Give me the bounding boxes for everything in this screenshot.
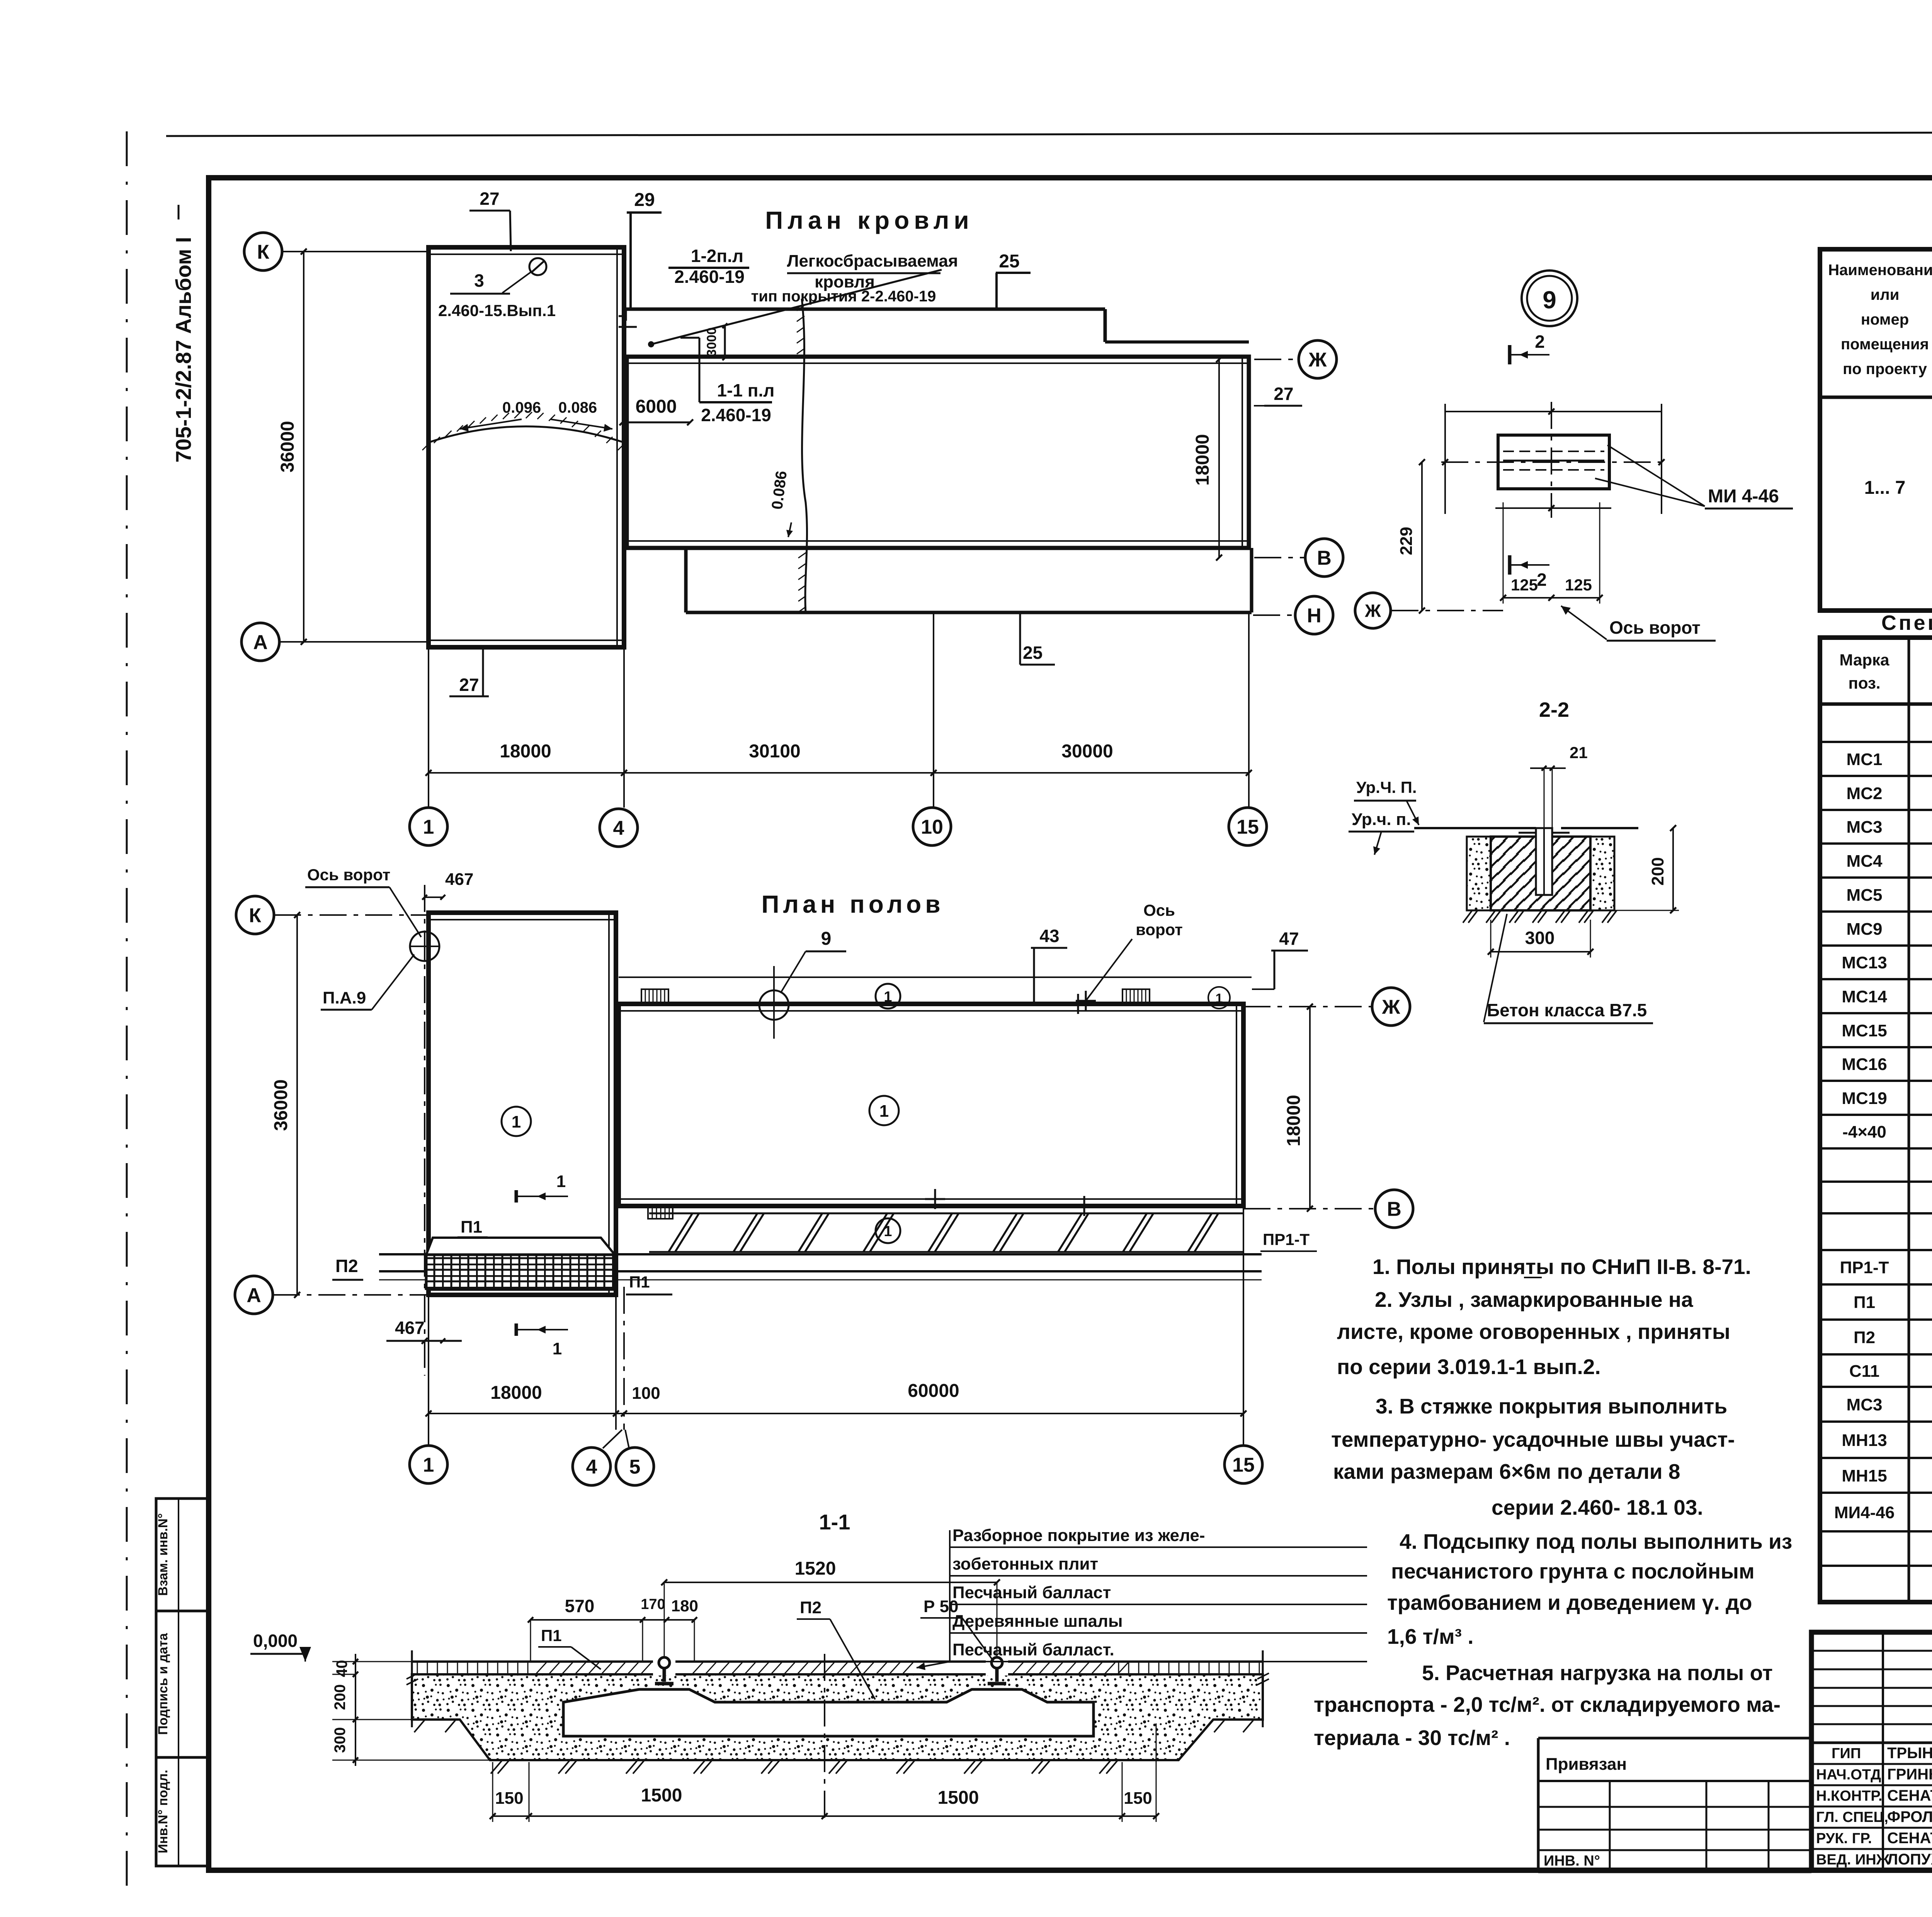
svg-text:П1: П1 [541,1626,562,1645]
grid circles 1 4 10 15 [410,808,447,845]
drainage curve with hatch [429,427,624,443]
svg-text:2: 2 [1537,570,1547,590]
vertical dim 36000 [303,252,304,642]
right edge [1262,1650,1264,1727]
svg-text:Ж: Ж [1308,349,1327,371]
svg-text:3000: 3000 [704,327,719,357]
left edge with break [411,1650,413,1727]
svg-text:МН15: МН15 [1842,1466,1887,1485]
svg-text:1: 1 [884,989,892,1005]
diag hatch П2 middle [692,1662,704,1674]
pit concrete hatched block [1491,837,1590,910]
dim 200 2-2 [1672,828,1674,910]
lower signature rows [1811,1763,1932,1765]
svg-text:300: 300 [1525,928,1555,948]
svg-text:6000: 6000 [636,396,677,417]
svg-text:18000: 18000 [490,1383,542,1403]
svg-text:Деревянные шпалы: Деревянные шпалы [952,1612,1123,1631]
svg-text:МС14: МС14 [1842,987,1887,1006]
inner frame [209,178,1932,1870]
top small flanges [1519,832,1536,834]
svg-text:НАЧ.ОТД.: НАЧ.ОТД. [1816,1767,1885,1783]
svg-text:ТРЫНОВ: ТРЫНОВ [1887,1745,1932,1762]
svg-text:15: 15 [1236,816,1259,839]
detail 9 circle [1522,270,1577,326]
svg-text:ГИП: ГИП [1832,1745,1861,1762]
svg-text:П2: П2 [335,1256,358,1276]
svg-text:1520: 1520 [795,1558,836,1579]
top surface line [412,1660,1263,1663]
svg-text:К: К [249,905,261,927]
svg-text:-4×40: -4×40 [1842,1123,1886,1141]
svg-text:Песчаный балласт: Песчаный балласт [952,1583,1111,1602]
svg-text:36000: 36000 [271,1079,291,1131]
svg-text:1: 1 [423,816,434,839]
left building outline [429,247,624,647]
svg-text:100: 100 [632,1384,660,1403]
right axis Ж circle floor [1372,988,1410,1026]
svg-text:467: 467 [395,1318,425,1338]
circled 1 left building [502,1107,531,1136]
svg-text:40: 40 [333,1660,350,1677]
svg-text:1: 1 [1216,991,1223,1006]
circled 1 right building [869,1096,899,1125]
right building floor plan [619,1004,1243,1206]
svg-text:21: 21 [1570,743,1588,762]
svg-text:200: 200 [1648,857,1667,885]
svg-text:1: 1 [423,1454,434,1476]
svg-text:1,6 т/м³ .: 1,6 т/м³ . [1387,1624,1474,1648]
svg-text:18000: 18000 [500,741,551,762]
dim 300 2-2 [1491,951,1590,953]
svg-text:Ось ворот: Ось ворот [1609,617,1701,638]
svg-text:150: 150 [1124,1789,1152,1808]
svg-text:1: 1 [879,1102,889,1121]
svg-text:170: 170 [641,1596,665,1613]
svg-text:5. Расчетная нагрузка на по: 5. Расчетная нагрузка на полы от [1422,1661,1773,1685]
svg-text:43: 43 [1039,926,1059,946]
svg-text:СЕНАТОРОВ: СЕНАТОРОВ [1887,1830,1932,1847]
svg-text:ворот: ворот [1136,920,1183,939]
svg-text:План полов: План полов [761,890,944,918]
axis K circle [244,233,282,270]
svg-text:25: 25 [1023,643,1043,663]
svg-text:1-1: 1-1 [819,1510,850,1534]
П2 slab cross-section [563,1689,1094,1736]
svg-text:ПР1-Т: ПР1-Т [1840,1258,1889,1277]
svg-text:ЛОПУХОВА: ЛОПУХОВА [1887,1851,1932,1868]
platform hatched block [426,1255,615,1289]
title block left sub-table verticals [1882,1632,1884,1870]
svg-text:РУК. ГР.: РУК. ГР. [1816,1830,1872,1847]
svg-text:зобетонных плит: зобетонных плит [952,1555,1098,1573]
ramp hatch strip [649,1213,1243,1214]
svg-text:2.460-19: 2.460-19 [674,267,745,287]
svg-text:125: 125 [1565,576,1592,594]
svg-text:помещения: помещения [1841,336,1929,353]
gate combs on top wall [641,989,668,1004]
svg-text:0.096: 0.096 [502,399,541,416]
svg-text:5: 5 [629,1456,641,1478]
svg-text:1. Полы приняты по СНиП II-: 1. Полы приняты по СНиП II-В. 8-71. [1372,1255,1751,1279]
gate axis target left [410,932,439,961]
svg-text:18000: 18000 [1284,1095,1304,1146]
svg-text:30000: 30000 [1061,741,1113,762]
svg-text:Легкосбрасываемая: Легкосбрасываемая [787,252,958,270]
right axis В circle floor [1375,1190,1413,1228]
floor surface lines 2-2 [1414,827,1536,829]
ground hatch under pit [491,1760,502,1774]
svg-text:Разборное покрытие из желе-: Разборное покрытие из желе- [952,1526,1205,1545]
svg-text:2.460-15.Вып.1: 2.460-15.Вып.1 [438,301,556,320]
svg-text:МС16: МС16 [1842,1055,1887,1074]
svg-text:Бетон класса В7.5: Бетон класса В7.5 [1487,1000,1647,1020]
svg-text:МС15: МС15 [1842,1021,1887,1040]
svg-text:229: 229 [1397,527,1416,555]
svg-text:ками размерам 6×6м по д: ками размерам 6×6м по детали 8 [1333,1459,1680,1483]
outer thin border top [166,131,1932,136]
svg-text:П1: П1 [1854,1293,1875,1312]
svg-text:2: 2 [1535,332,1545,352]
bottom dims 150 1500 1500 150 [493,1815,1156,1817]
grid circles floor [410,1446,447,1483]
dim 125 125 [1503,597,1600,599]
dim 6000 [622,422,690,424]
svg-text:СЕНАТОРОВ: СЕНАТОРОВ [1887,1787,1932,1804]
svg-text:705-1-2/2.87 Альбом I: 705-1-2/2.87 Альбом I [171,237,196,463]
svg-text:9: 9 [1543,286,1556,314]
svg-text:Ось: Ось [1143,901,1175,919]
svg-text:15: 15 [1232,1454,1255,1476]
bottom dim line [429,772,1249,774]
svg-text:125: 125 [1511,576,1538,594]
svg-text:температурно- усадочные швы: температурно- усадочные швы участ- [1331,1427,1735,1451]
svg-text:териала - 30 тс/м² .: териала - 30 тс/м² . [1314,1726,1510,1750]
svg-text:30100: 30100 [749,741,800,762]
svg-text:Ур.ч. п.: Ур.ч. п. [1352,810,1411,829]
svg-text:60000: 60000 [908,1381,959,1401]
top dim 1520 [664,1582,997,1583]
svg-text:транспорта - 2,0 тс/м². от с: транспорта - 2,0 тс/м². от складируемого… [1314,1692,1781,1716]
axis A circle floor [235,1276,273,1314]
svg-text:27: 27 [459,675,479,695]
rail 1 [653,1660,675,1675]
asphalt brick hatch right [1118,1662,1119,1674]
svg-text:18000: 18000 [1192,434,1213,485]
center dash-dot line [824,1654,825,1824]
svg-text:ГРИНКЕВИЧ: ГРИНКЕВИЧ [1887,1766,1932,1783]
svg-text:2.460-19: 2.460-19 [701,405,771,425]
svg-text:1: 1 [553,1339,562,1358]
axis Ж circle near detail [1355,593,1391,628]
axis A circle [241,623,279,661]
svg-text:МС3: МС3 [1847,1395,1883,1414]
concrete bed stipple polygon [412,1674,1263,1760]
asphalt brick hatch left [417,1662,418,1674]
dim 229 [1421,462,1423,611]
svg-text:План кровли: План кровли [765,206,973,234]
svg-text:2. Узлы , замаркированные на: 2. Узлы , замаркированные на [1375,1288,1693,1311]
section flag 2 upper [1508,345,1512,364]
svg-text:Инв.N° подл.: Инв.N° подл. [156,1770,170,1853]
svg-text:36000: 36000 [277,421,298,472]
svg-text:или: или [1871,286,1900,303]
svg-text:300: 300 [332,1727,349,1753]
right axis Н circle [1295,596,1333,634]
svg-text:1-2п.л: 1-2п.л [691,246,743,266]
svg-text:В: В [1387,1198,1401,1221]
dims 570 170 180 [531,1619,694,1621]
svg-text:П2: П2 [800,1598,821,1617]
svg-text:МИ 4-46: МИ 4-46 [1708,486,1779,507]
detail rect МИ4-46 [1498,435,1609,489]
axis A line [279,641,429,643]
svg-text:Спецификация элементов к п: Спецификация элементов к планам кровли и… [1881,611,1932,634]
rail 2 [986,1660,1008,1675]
svg-text:10: 10 [921,816,943,839]
svg-text:МС1: МС1 [1847,750,1883,769]
section cut marks 1-1 [515,1190,518,1203]
dim 18000 right floor [1309,1007,1311,1209]
svg-text:В: В [1317,547,1332,570]
svg-text:200: 200 [332,1684,349,1710]
section flag 2 lower [1508,555,1512,575]
vertical dim 36000 floor [296,915,298,1295]
svg-text:3: 3 [474,270,484,291]
svg-text:ВЕД. ИНЖ: ВЕД. ИНЖ [1816,1852,1890,1868]
svg-text:Привязан: Привязан [1546,1755,1627,1774]
Привязан table [1538,1737,1811,1740]
svg-text:по проекту: по проекту [1843,361,1927,378]
svg-text:27: 27 [1274,384,1293,404]
underline for СНиП II [1524,1277,1542,1278]
svg-text:Ось ворот: Ось ворот [307,866,390,884]
svg-text:по серии 3.019.1-1 вып.2.: по серии 3.019.1-1 вып.2. [1337,1355,1601,1379]
svg-text:2-2: 2-2 [1539,698,1569,721]
right axis В circle [1305,539,1343,577]
svg-text:9: 9 [821,929,832,949]
svg-text:180: 180 [671,1597,698,1615]
svg-text:ГЛ. СПЕЦ,: ГЛ. СПЕЦ, [1816,1809,1888,1825]
plus marks on walls [1068,1003,1088,1005]
svg-text:0.086: 0.086 [558,399,597,416]
svg-text:Песчаный балласт.: Песчаный балласт. [952,1640,1114,1659]
svg-text:С11: С11 [1849,1362,1879,1381]
title block outer [1811,1632,1932,1870]
axis line through gate left building [424,885,425,1376]
svg-text:П1: П1 [461,1218,482,1237]
centerlines detail 9 [1441,461,1662,463]
svg-text:3. В стяжке покрытия выполни: 3. В стяжке покрытия выполнить [1376,1394,1727,1418]
svg-text:47: 47 [1279,929,1299,949]
explication table frame [1820,249,1932,611]
svg-text:ИНВ. N°: ИНВ. N° [1544,1853,1600,1869]
circled 1 on top wall [876,984,900,1009]
right axis Ж circle [1299,340,1337,378]
ground hatch under 2-2 [1463,910,1472,923]
svg-text:Взам. инв.N°: Взам. инв.N° [156,1513,170,1596]
svg-text:А: А [253,631,268,654]
thin canopy line above top wall [619,976,1252,978]
svg-text:поз.: поз. [1848,674,1880,692]
svg-text:Н.КОНТР.: Н.КОНТР. [1816,1788,1883,1804]
svg-text:МС19: МС19 [1842,1089,1887,1108]
svg-text:Наименование: Наименование [1828,262,1932,279]
platform plate П1 trapezoid [426,1238,615,1255]
diag hatch П1 left [536,1662,547,1674]
svg-text:серии 2.460- 18.1 03.: серии 2.460- 18.1 03. [1492,1495,1703,1519]
slope arrows 0.096 0.086 [460,419,522,429]
svg-text:4. Подсыпку под полы выполн: 4. Подсыпку под полы выполнить из [1400,1529,1792,1553]
svg-text:тип покрытия 2-2.460-19: тип покрытия 2-2.460-19 [751,288,936,305]
svg-text:МИ4-46: МИ4-46 [1834,1503,1895,1522]
dim lines detail 9 [1445,411,1662,412]
left margin stamp boxes [156,1499,207,1866]
small steps at ramp end [648,1207,673,1219]
svg-text:МС9: МС9 [1847,920,1883,939]
svg-text:570: 570 [565,1596,595,1616]
gate axis target right [759,990,789,1020]
spec table frame [1820,638,1932,1602]
svg-text:1: 1 [512,1112,521,1131]
svg-text:1-1 п.л: 1-1 п.л [717,380,774,400]
dim 3000 rotated [724,326,726,358]
svg-text:4: 4 [586,1456,597,1478]
svg-text:4: 4 [613,817,624,840]
bottom dim line floor [429,1413,1243,1414]
svg-text:27: 27 [480,189,499,209]
svg-text:1... 7: 1... 7 [1864,478,1906,498]
svg-text:1: 1 [556,1172,566,1191]
diameter symbol [529,258,546,275]
svg-text:29: 29 [634,190,655,210]
circled 1 on ramp [876,1218,900,1243]
svg-text:листе, кроме оговоренных , пр: листе, кроме оговоренных , приняты [1337,1320,1730,1344]
svg-text:МС4: МС4 [1847,852,1883,871]
main roof rectangle [627,357,1249,548]
svg-text:1: 1 [884,1223,892,1240]
left building floor plan [429,913,616,1295]
svg-text:25: 25 [999,251,1019,272]
svg-text:П2: П2 [1854,1328,1875,1347]
svg-text:Ж: Ж [1382,996,1401,1019]
axis K circle floor [236,896,274,934]
rails [379,1253,1262,1255]
svg-text:П.А.9: П.А.9 [323,988,366,1007]
svg-text:Н: Н [1307,605,1321,627]
svg-text:МС13: МС13 [1842,953,1887,972]
svg-text:0,000: 0,000 [253,1631,298,1651]
svg-text:ФРОЛОВА: ФРОЛОВА [1887,1808,1932,1825]
pit stipple sides [1467,837,1491,910]
svg-text:МС3: МС3 [1847,818,1883,837]
svg-text:Ж: Ж [1364,601,1381,621]
expansion joint wavy line [802,299,807,612]
svg-text:Подпись и дата: Подпись и дата [156,1633,170,1735]
svg-text:П1: П1 [629,1273,650,1291]
svg-text:ПР1-Т: ПР1-Т [1263,1230,1310,1249]
svg-text:МС5: МС5 [1847,886,1883,905]
upper small rows [1811,1650,1932,1652]
svg-text:1500: 1500 [641,1785,682,1806]
elevation dims 40 200 300 [355,1654,356,1766]
svg-text:А: А [247,1284,261,1307]
svg-text:Ур.Ч. П.: Ур.Ч. П. [1356,778,1417,796]
slot [1536,828,1552,895]
svg-text:песчанистого грунта с посл: песчанистого грунта с послойным [1391,1559,1755,1583]
sheet outer cut line (dash-dot, left) [126,131,128,1890]
svg-text:К: К [257,241,269,264]
svg-text:1500: 1500 [938,1788,979,1808]
svg-text:номер: номер [1861,311,1909,328]
svg-text:МС2: МС2 [1847,784,1883,803]
lower extension [684,548,688,612]
axis K line [282,251,429,252]
svg-text:Марка: Марка [1840,651,1890,669]
svg-text:трамбованием и доведением: трамбованием и доведением γ. до [1387,1590,1752,1614]
right dim 18000 [1218,359,1220,558]
svg-text:150: 150 [495,1789,523,1808]
svg-text:МН13: МН13 [1842,1431,1887,1450]
diag hatch right [1012,1662,1024,1674]
canopy roof outline [626,308,1105,311]
svg-text:467: 467 [445,870,473,889]
